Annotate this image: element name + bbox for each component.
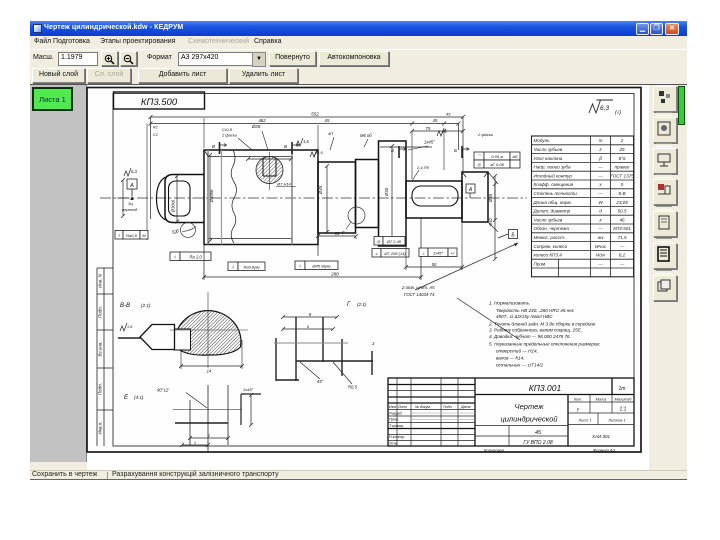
right journal keyway slot — [412, 186, 458, 206]
svg-text:Лит.: Лит. — [573, 398, 582, 402]
svg-text:⌀7 0,08: ⌀7 0,08 — [490, 162, 504, 167]
svg-text:2. Точить длиной задн. М 3 до: 2. Точить длиной задн. М 3 до сборки в с… — [488, 321, 596, 327]
svg-text:2: 2 — [620, 138, 624, 143]
svg-text:71,5: 71,5 — [618, 235, 627, 240]
end chamfer arc — [157, 177, 166, 220]
detail pointer circle E on left journal — [181, 223, 196, 238]
svg-text:цилиндрической: цилиндрической — [500, 415, 558, 424]
svg-text:№ докум.: № докум. — [415, 405, 431, 409]
svg-text:В: В — [212, 144, 215, 149]
svg-text:50,5: 50,5 — [618, 209, 627, 214]
shaft segment C — [318, 162, 356, 233]
svg-text:Ø45 к6(м): Ø45 к6(м) — [311, 263, 331, 268]
svg-text:Исходный контур: Исходный контур — [534, 172, 573, 178]
svg-text:Н.контр.: Н.контр. — [389, 435, 405, 439]
cut marks Б on right journal — [398, 146, 400, 158]
freehand break line — [231, 150, 236, 243]
svg-text:Зц: Зц — [128, 201, 133, 206]
svg-text:1х45°: 1х45° — [243, 387, 254, 392]
svg-text:8,2: 8,2 — [619, 253, 626, 258]
svg-text:колесо КП3.4: колесо КП3.4 — [534, 253, 563, 258]
svg-text:Изм.: Изм. — [389, 405, 397, 409]
thread boundary gray lines — [207, 150, 209, 245]
svg-text:45: 45 — [433, 118, 438, 123]
shaft segment F (right journal) — [406, 181, 462, 218]
svg-text:1т: 1т — [619, 386, 626, 392]
svg-text:ХАИ 301: ХАИ 301 — [591, 434, 610, 439]
svg-text:Лист: Лист — [397, 405, 407, 409]
svg-text:переход: переход — [122, 207, 138, 212]
dim through keyway section — [246, 157, 293, 161]
svg-text:—: — — [597, 173, 603, 178]
lower dim chain — [203, 243, 205, 280]
svg-text:(√): (√) — [615, 109, 621, 116]
svg-text:2 отв. цент. А5: 2 отв. цент. А5 — [401, 285, 435, 290]
svg-text:4. Доводка: чубчат — 98 000 2: 4. Доводка: чубчат — 98 000 2478 76. — [489, 334, 571, 339]
drawing canvas — [87, 85, 649, 470]
inner drawing frame — [113, 94, 634, 447]
svg-text:β: β — [598, 156, 602, 161]
svg-text:75: 75 — [426, 126, 431, 131]
keyway on left journal — [169, 181, 191, 216]
svg-text:Wчис: Wчис — [595, 244, 607, 249]
svg-text:8-В: 8-В — [618, 191, 625, 196]
svg-text:Модуль: Модуль — [534, 138, 551, 143]
svg-text:Длина общ. норм.: Длина общ. норм. — [533, 200, 572, 205]
centerlines of section — [207, 292, 209, 368]
svg-text:А: А — [129, 183, 134, 189]
svg-text:ГОСТ 14034-74: ГОСТ 14034-74 — [404, 292, 435, 297]
svg-text:Подп.: Подп. — [98, 306, 103, 318]
svg-text:Подп.: Подп. — [98, 383, 103, 395]
svg-text:2 фаски: 2 фаски — [221, 133, 238, 138]
svg-text:◎: ◎ — [477, 162, 481, 167]
top overall dims — [150, 117, 152, 219]
svg-text:КП3.001: КП3.001 — [529, 383, 562, 393]
svg-text:Обозн. чертежа: Обозн. чертежа — [534, 226, 570, 231]
svg-text:—: — — [597, 226, 603, 231]
svg-text:Пров.: Пров. — [389, 418, 399, 422]
svg-text:Масштаб: Масштаб — [615, 398, 633, 402]
svg-text:Ra 2,0: Ra 2,0 — [189, 254, 202, 259]
svg-text:R1: R1 — [153, 126, 158, 130]
svg-text:Листов 1: Листов 1 — [608, 419, 626, 423]
GOST left margin column — [97, 268, 113, 446]
svg-text:+с: +с — [450, 250, 454, 255]
roughness symbol top-right — [589, 100, 613, 113]
svg-text:Ra0,8(м): Ra0,8(м) — [243, 264, 260, 269]
svg-text:Напр. линии зуба: Напр. линии зуба — [534, 165, 571, 170]
datum box mid — [509, 230, 518, 239]
chamfer corner lines — [204, 150, 208, 156]
svg-text:45: 45 — [535, 430, 542, 436]
svg-text:50: 50 — [432, 262, 437, 267]
svg-text:R0,5: R0,5 — [348, 385, 358, 390]
svg-text:Делит. диаметр: Делит. диаметр — [533, 209, 571, 214]
svg-text:Число зубьев: Число зубьев — [534, 147, 563, 152]
parameter table — [532, 136, 634, 277]
svg-text:45: 45 — [446, 112, 451, 117]
svg-text:Масса: Масса — [596, 398, 607, 402]
svg-text:46: 46 — [619, 217, 625, 222]
thread minor lines — [208, 156, 292, 158]
svg-text:23,05: 23,05 — [615, 200, 628, 205]
svg-text:25: 25 — [618, 147, 625, 152]
svg-text:1,6: 1,6 — [127, 325, 133, 329]
svg-text:—: — — [619, 261, 625, 266]
svg-text:Б: Б — [391, 148, 394, 153]
svg-text:Ø7 2,4б: Ø7 2,4б — [386, 239, 402, 244]
svg-text:⟂: ⟂ — [375, 251, 378, 256]
svg-text:m: m — [599, 138, 603, 143]
right tool palette — [649, 85, 687, 470]
detail pointer circle on mid shaft — [348, 207, 365, 224]
svg-text:45: 45 — [325, 118, 330, 123]
svg-text:⟂: ⟂ — [422, 250, 425, 255]
title bar — [30, 21, 687, 36]
svg-text:—: — — [597, 261, 603, 266]
svg-text:1. Нормализовать.: 1. Нормализовать. — [489, 301, 530, 306]
svg-text:остальных — ±IT14/2: остальных — ±IT14/2 — [496, 363, 543, 368]
svg-text:Т.контр.: Т.контр. — [389, 424, 404, 428]
shaft segment G (right end) — [462, 172, 488, 222]
keyway slot lines inside section — [263, 158, 276, 176]
svg-text:462: 462 — [258, 118, 266, 123]
shaft segment A (left journal) — [165, 175, 204, 223]
svg-text:85: 85 — [335, 231, 340, 236]
svg-text:Ø42: Ø42 — [488, 217, 493, 227]
svg-text:правое: правое — [615, 165, 630, 170]
svg-text:0: 0 — [621, 182, 624, 187]
svg-text:aw: aw — [598, 235, 605, 240]
svg-text:ГОСТ 1375: ГОСТ 1375 — [610, 173, 634, 178]
svg-text:Коэфф. смещения: Коэфф. смещения — [534, 182, 574, 187]
svg-text:8°6: 8°6 — [619, 156, 626, 161]
svg-text:(2:1): (2:1) — [357, 302, 367, 307]
svg-text:280: 280 — [330, 272, 339, 277]
svg-text:валов — h14,: валов — h14, — [496, 356, 524, 361]
svg-text:Межос. расст.: Межос. расст. — [534, 235, 566, 240]
svg-text:КП3.501: КП3.501 — [613, 226, 631, 231]
svg-text:◎: ◎ — [377, 239, 381, 244]
svg-text:6,3: 6,3 — [600, 105, 609, 112]
svg-text:Степень точности: Степень точности — [534, 191, 578, 196]
svg-text:1:1: 1:1 — [620, 407, 627, 413]
svg-text:(4:1): (4:1) — [134, 395, 144, 400]
svg-text:С•0,8: С•0,8 — [222, 127, 233, 132]
svg-text:В-В: В-В — [120, 303, 130, 309]
svg-text:Прим.: Прим. — [534, 261, 547, 266]
svg-text:Сопряж. колесо: Сопряж. колесо — [534, 244, 568, 249]
svg-text:Формат А3: Формат А3 — [593, 448, 616, 453]
sheet paper — [87, 88, 641, 453]
right lower boxes — [374, 237, 405, 246]
svg-text:90°±2': 90°±2' — [157, 388, 169, 393]
svg-text:—: — — [619, 244, 625, 249]
svg-text:Ø50: Ø50 — [384, 187, 389, 197]
svg-text:0,05 ⌀: 0,05 ⌀ — [491, 154, 503, 159]
svg-text:Ø35: Ø35 — [488, 193, 493, 203]
svg-text:М6 об: М6 об — [360, 133, 372, 138]
svg-text:490Т...сl ШХ15у п!вал НВС: 490Т...сl ШХ15у п!вал НВС — [496, 314, 553, 319]
roughness boxes left — [115, 231, 148, 240]
svg-text:А: А — [468, 187, 473, 193]
svg-text:Разраб.: Разраб. — [389, 412, 403, 416]
status bar — [30, 470, 687, 480]
svg-text:552: 552 — [311, 111, 319, 116]
svg-text:КП3.500: КП3.500 — [141, 97, 178, 108]
datum A box right — [466, 184, 475, 193]
shaft segment E — [379, 141, 407, 246]
leaders with radius labels — [300, 362, 320, 379]
svg-text:Ø45: Ø45 — [318, 185, 323, 195]
svg-text:W: W — [598, 200, 603, 205]
svg-text:Ra0,8: Ra0,8 — [126, 233, 137, 238]
svg-text:Инв.п.: Инв.п. — [98, 421, 103, 434]
dim 50 right journal — [405, 218, 407, 270]
shaft segment B (main body) — [204, 150, 318, 245]
svg-text:Wзн: Wзн — [596, 253, 605, 258]
svg-text:Копировал: Копировал — [484, 448, 505, 453]
svg-text:Твердость НВ 240...280 НRС 4: Твердость НВ 240...280 НRС 45 нес — [496, 308, 575, 313]
svg-text:3. Работу собранного, валом с: 3. Работу собранного, валом сокращ. 25Е. — [489, 328, 582, 333]
toolbar row 2 — [30, 67, 687, 84]
svg-text:Инв. N: Инв. N — [98, 273, 103, 288]
svg-text:4П: 4П — [328, 131, 333, 136]
svg-text:АБ: АБ — [511, 154, 518, 159]
svg-text:—: — — [597, 165, 603, 170]
left datum A — [124, 168, 131, 176]
svg-text:В: В — [284, 144, 287, 149]
svg-text:d: d — [599, 209, 602, 214]
hatched circle — [175, 311, 241, 355]
svg-text:Б: Б — [454, 148, 457, 153]
svg-text:45°: 45° — [317, 379, 324, 384]
svg-text:2,4 Пб: 2,4 Пб — [416, 165, 430, 170]
svg-text:Число зубьев: Число зубьев — [534, 217, 563, 222]
sheet tab strip — [30, 84, 687, 85]
svg-text:ГУ ВПО 2.08: ГУ ВПО 2.08 — [523, 440, 552, 446]
svg-text:Чертеж: Чертеж — [515, 402, 545, 411]
toolbar row 1 — [30, 49, 687, 68]
svg-text:1х45°: 1х45° — [424, 140, 435, 145]
svg-text:6,3: 6,3 — [131, 169, 137, 174]
key side profile — [140, 325, 175, 350]
svg-text:Ø7 208 (14): Ø7 208 (14) — [383, 251, 406, 256]
svg-text:2 фаски: 2 фаски — [477, 132, 494, 137]
centerline — [100, 197, 527, 199]
svg-text:—: — — [597, 191, 603, 196]
svg-text:14: 14 — [207, 369, 212, 374]
svg-text:Утв.: Утв. — [389, 442, 398, 446]
application window — [30, 21, 687, 480]
svg-text:1х45°: 1х45° — [433, 250, 444, 255]
svg-text:Лист 1: Лист 1 — [578, 419, 592, 423]
svg-text:2,5: 2,5 — [316, 150, 323, 155]
svg-text:(2:1): (2:1) — [141, 303, 151, 308]
right end vertical dim — [493, 182, 497, 261]
tolerance frame top right — [474, 152, 520, 160]
keyway notch (white) — [174, 329, 191, 350]
shaft segment D (collar) — [356, 160, 379, 228]
svg-text:Угол наклона: Угол наклона — [534, 156, 563, 161]
svg-text:Подп.: Подп. — [443, 405, 453, 409]
svg-text:С1: С1 — [153, 133, 158, 137]
svg-text:Ø28: Ø28 — [251, 124, 261, 129]
svg-text:отверстий — Н14,: отверстий — Н14, — [496, 348, 538, 354]
svg-text:1: 1 — [194, 440, 196, 445]
svg-text:Дата: Дата — [460, 405, 470, 409]
svg-text:1,6: 1,6 — [303, 139, 309, 144]
journal diameter dim — [175, 174, 179, 224]
section cut marks B-B — [219, 142, 221, 154]
svg-text:5. Неуказанные предельные откл: 5. Неуказанные предельные отклонения раз… — [489, 342, 601, 347]
designation box top-left — [114, 92, 205, 109]
dim under segment C — [317, 235, 319, 239]
svg-text:Ø7 Н14: Ø7 Н14 — [276, 182, 292, 187]
svg-text:Вз.инв.: Вз.инв. — [98, 342, 103, 357]
svg-text:52: 52 — [172, 230, 177, 235]
svg-text:Ø30к6: Ø30к6 — [171, 199, 176, 213]
menu bar — [30, 36, 687, 49]
bottom dim — [180, 351, 182, 369]
